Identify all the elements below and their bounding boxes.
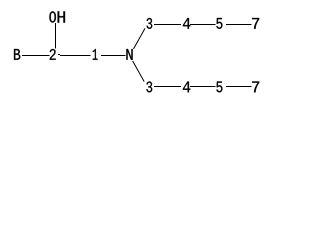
wire bond B-C2 — [22, 55, 50, 57]
wire bond C4t-S5t — [190, 24, 216, 26]
wire bond C3t-C4t — [154, 24, 181, 26]
node atom 4 top label — [183, 18, 190, 29]
node atom 5 top label — [216, 18, 222, 29]
node atom 3 bottom label — [146, 82, 152, 93]
wire bond S5t-C7t — [226, 24, 252, 26]
node atom 5 bottom label — [216, 82, 222, 93]
node B boron label — [14, 49, 20, 60]
wire bond C1-N — [101, 55, 126, 57]
node N nitrogen label — [126, 49, 132, 60]
node atom 4 bottom label — [183, 82, 190, 93]
wire bond N-C3 top diagonal — [134, 28, 146, 49]
wire bond N-C3 bottom diagonal — [133, 61, 145, 82]
wire bond C3b-C4b — [154, 86, 181, 88]
wire bond S5b-C7b — [226, 86, 252, 88]
node atom 1 label — [93, 49, 98, 60]
wire bond C2-OH vertical — [55, 23, 57, 49]
node OH hydroxyl label O — [49, 11, 56, 22]
wire bond C2-C1 jog pixel — [58, 54, 60, 55]
wire bond C4b-S5b — [190, 86, 216, 88]
node atom 7 bottom label — [252, 82, 259, 93]
node atom 2 label — [50, 49, 56, 60]
node OH hydroxyl label H — [58, 11, 65, 22]
node atom 7 top label — [252, 18, 259, 29]
node atom 3 top label — [147, 18, 153, 29]
wire bond C2-C1 — [60, 55, 91, 57]
